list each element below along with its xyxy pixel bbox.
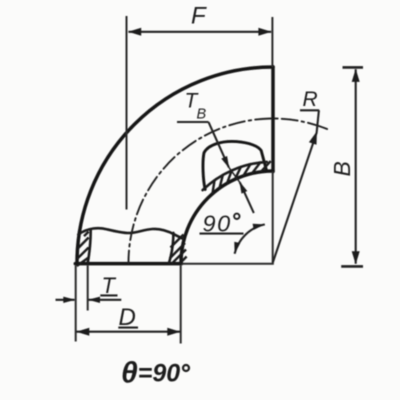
hatching of right wall section: [170, 235, 187, 264]
vertical centerline / F extension line at bottom port: [126, 16, 128, 210]
extension line left (outer surface): [75, 266, 77, 342]
angle arc arrow bottom: [234, 242, 240, 254]
F right extension line above right face: [271, 17, 273, 67]
centerline arc (dash-dot): [128, 119, 327, 264]
D arrow right: [167, 328, 180, 336]
degree circle of 90: [234, 214, 239, 219]
bore near-side wall line (right): [169, 233, 173, 263]
bottom face extension to corner: [182, 263, 274, 265]
dimension B line: [355, 69, 357, 263]
inner arc of elbow body: [181, 171, 273, 263]
svg-text:B: B: [197, 107, 207, 123]
cutaway dome outline (partial section at bend back wall): [203, 141, 267, 189]
T arrow pointing right: [63, 297, 75, 303]
T_B arrow upper (to outer surface of band): [221, 156, 229, 168]
radius line R from corner to centerline arc: [273, 110, 319, 262]
T arrow pointing left: [88, 297, 100, 303]
D arrow left: [76, 328, 89, 336]
right face extension to corner: [272, 172, 274, 264]
svg-text:B: B: [329, 161, 355, 176]
F arrow left: [128, 28, 141, 36]
T_B underline: [177, 121, 209, 123]
T_B lower line: [240, 182, 254, 213]
bottom port face: [75, 262, 181, 266]
R label underline: [300, 109, 319, 111]
B arrow up: [352, 69, 360, 82]
B arrow down: [352, 251, 360, 264]
T_B arrow lower (to inner surface of band): [239, 181, 247, 193]
B extension tick top: [343, 66, 364, 69]
svg-text:R: R: [303, 88, 318, 111]
hatching of left wall section: [77, 232, 89, 266]
hatching of dome band section: [212, 161, 270, 194]
degree circle of theta row: [183, 365, 189, 371]
wavy break line of local section: [78, 228, 183, 239]
elbow angle arc: [235, 224, 265, 253]
bore far-side arc inside dome (upper edge of hatched band): [203, 162, 267, 190]
dimension D line: [77, 331, 181, 333]
R arrow on centerline arc: [309, 131, 317, 145]
dimension T line right part: [88, 299, 121, 301]
bore far-side wall line (left): [88, 230, 91, 263]
outer arc of elbow body: [77, 67, 273, 263]
T underline: [100, 294, 117, 296]
dimension F line: [128, 31, 271, 33]
extension line right (outer surface): [180, 266, 182, 344]
right port face: [271, 67, 275, 172]
angle arc arrow upper: [253, 224, 265, 230]
F arrow right: [258, 28, 271, 36]
svg-text:F: F: [191, 3, 207, 30]
T_B crossing segment: [229, 167, 240, 182]
B extension tick bottom: [341, 265, 363, 268]
90 degrees underline: [200, 233, 244, 235]
svg-text:T: T: [102, 273, 117, 298]
extension line T (bore surface): [87, 266, 89, 311]
T_B leader to wall: [209, 122, 229, 167]
D underline: [118, 327, 138, 329]
dimension T line left part: [56, 299, 75, 301]
svg-text:θ=90: θ=90: [121, 357, 180, 390]
